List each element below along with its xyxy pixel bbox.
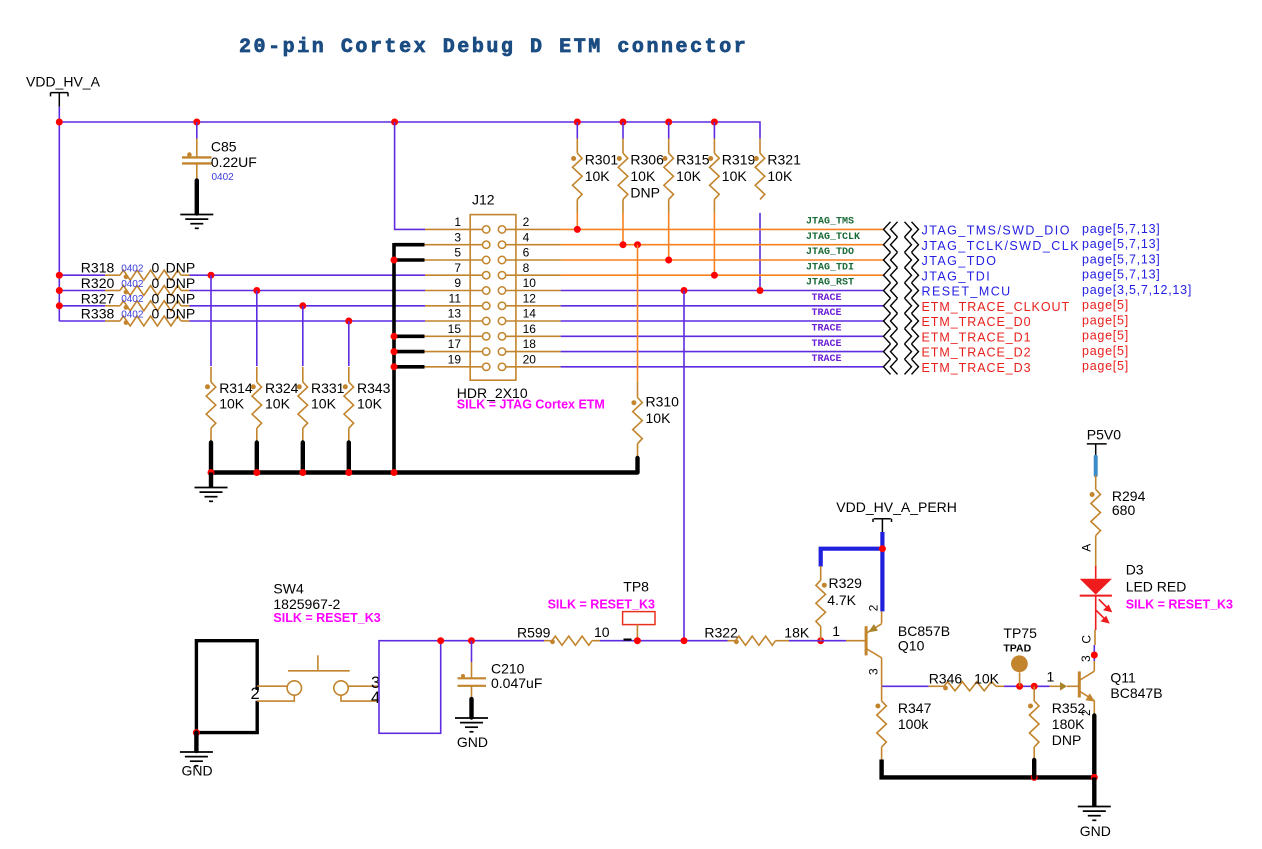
off-page connector row8 xyxy=(884,329,919,344)
wire TRACE_D0 (pin14) xyxy=(561,320,884,322)
pin 17 wire gnd (thick) xyxy=(394,350,425,354)
pin numbers left xyxy=(448,215,462,366)
off-page connector row5 xyxy=(884,283,919,298)
svg-text:SILK = RESET_K3: SILK = RESET_K3 xyxy=(273,611,380,625)
svg-text:R320: R320 xyxy=(81,275,115,291)
svg-text:LED RED: LED RED xyxy=(1126,579,1187,595)
resistor R331 10K xyxy=(297,306,345,442)
wire JTAG_TDO (pin6) xyxy=(561,259,884,261)
svg-text:10K: 10K xyxy=(646,410,672,426)
wire R315 to pin6 row xyxy=(668,213,670,260)
wire C85 to ground (thick) xyxy=(195,181,199,214)
pin 3 wire gnd (thick) xyxy=(394,243,425,247)
svg-text:D3: D3 xyxy=(1126,562,1144,578)
resistor R320 0 DNP xyxy=(59,275,195,296)
resistor R352 180K DNP xyxy=(1028,686,1085,761)
pin 13 wire xyxy=(425,320,483,322)
svg-text:10: 10 xyxy=(523,276,537,290)
svg-text:11: 11 xyxy=(449,291,462,305)
resistor R347 100k xyxy=(875,686,931,761)
pin circles J12 xyxy=(483,226,506,371)
node dots on gnd vertical xyxy=(391,257,398,371)
svg-text:R347: R347 xyxy=(898,700,932,716)
svg-text:0402: 0402 xyxy=(121,309,144,320)
pin stubs right (tan) xyxy=(505,229,560,366)
svg-text:Q11: Q11 xyxy=(1110,670,1136,686)
pin 5 wire gnd (thick) xyxy=(394,258,425,262)
svg-text:1: 1 xyxy=(832,623,840,639)
svg-text:page[5]: page[5] xyxy=(1082,298,1129,312)
capacitor C85 xyxy=(182,122,257,183)
svg-text:TP75: TP75 xyxy=(1003,625,1037,641)
wire reset net horizontal xyxy=(441,640,544,642)
off-page connector row4 xyxy=(884,268,919,283)
svg-text:R346: R346 xyxy=(929,671,963,687)
svg-text:TRACE: TRACE xyxy=(812,308,842,319)
svg-text:C85: C85 xyxy=(211,139,237,155)
svg-text:1825967-2: 1825967-2 xyxy=(273,596,340,612)
svg-text:SILK = RESET_K3: SILK = RESET_K3 xyxy=(548,597,655,611)
wire R321 to pin10 row xyxy=(759,213,761,291)
off-page connector row9 xyxy=(884,344,919,359)
svg-text:SW4: SW4 xyxy=(273,581,304,597)
svg-text:Q10: Q10 xyxy=(898,637,925,653)
wire R352 to bus (thick) xyxy=(1032,760,1036,777)
resistor R599 10 xyxy=(517,624,610,645)
svg-text:0: 0 xyxy=(152,260,160,276)
svg-text:DNP: DNP xyxy=(166,275,196,291)
wire connector-left ground vertical (thick) xyxy=(392,243,396,473)
svg-text:JTAG_TCLK/SWD_CLK: JTAG_TCLK/SWD_CLK xyxy=(922,239,1080,253)
svg-text:2: 2 xyxy=(867,604,881,611)
svg-text:R599: R599 xyxy=(517,624,551,640)
wire R599 to TP8 node xyxy=(592,640,600,642)
wire R322 to Q10 base xyxy=(776,640,790,642)
svg-text:JTAG_RST: JTAG_RST xyxy=(806,278,854,289)
wire bottom gnd bus (thick) xyxy=(882,760,1095,778)
svg-text:R327: R327 xyxy=(81,290,115,306)
svg-text:15: 15 xyxy=(448,322,462,336)
off-page connector row2 xyxy=(884,237,919,252)
svg-text:R318: R318 xyxy=(81,260,115,276)
wire R320 to pin9 xyxy=(181,290,190,292)
ground under SW4 xyxy=(180,752,213,766)
svg-text:10K: 10K xyxy=(357,396,383,412)
svg-text:10K: 10K xyxy=(219,396,245,412)
svg-text:GND: GND xyxy=(457,734,488,750)
node dots on reset line xyxy=(634,637,824,644)
wire JTAG_TMS (pin2) xyxy=(561,228,884,230)
svg-text:100k: 100k xyxy=(898,716,929,732)
node dots on left column xyxy=(56,272,353,325)
wire R314 to gnd bus (thick) xyxy=(209,443,213,473)
pin 19 wire gnd (thick) xyxy=(394,365,425,369)
LED D3 xyxy=(1080,562,1187,630)
off-page connector row6 xyxy=(884,298,919,313)
svg-text:R314: R314 xyxy=(219,380,253,396)
wire ground bus horizontal (thick) xyxy=(211,470,638,474)
svg-text:page[5]: page[5] xyxy=(1082,344,1129,358)
resistor R321 10K xyxy=(754,139,801,200)
power symbol VDD_HV_A xyxy=(26,73,101,122)
svg-text:ETM_TRACE_D2: ETM_TRACE_D2 xyxy=(922,346,1032,360)
svg-text:GND: GND xyxy=(182,763,213,779)
svg-text:JTAG_TDO: JTAG_TDO xyxy=(806,247,854,258)
wire C210 to ground (thick) xyxy=(469,699,473,717)
svg-text:3: 3 xyxy=(454,230,461,244)
wire R310 to gnd bus (thick) xyxy=(635,458,639,473)
wire Q11 emitter to gnd (thick) xyxy=(1092,716,1096,778)
svg-text:R310: R310 xyxy=(646,394,680,410)
svg-text:GND: GND xyxy=(1080,823,1111,839)
wire SW4 to ground (thick) xyxy=(194,733,198,751)
connector J12 HDR_2X10 xyxy=(457,192,528,402)
resistor R329 4.7K xyxy=(816,566,862,641)
svg-text:10K: 10K xyxy=(311,396,337,412)
resistor R343 10K xyxy=(343,321,391,442)
node dots on Q11 base line xyxy=(1016,683,1038,690)
wire R306 to pin4 row xyxy=(622,213,624,245)
wire P5V0 bar (blue) xyxy=(1094,457,1098,475)
svg-text:P5V0: P5V0 xyxy=(1087,427,1121,443)
svg-text:0402: 0402 xyxy=(121,264,144,275)
svg-text:VDD_HV_A: VDD_HV_A xyxy=(26,73,101,89)
transistor Q11 BC847B (NPN) xyxy=(1060,655,1163,716)
pin 11 wire xyxy=(425,305,483,307)
svg-text:DNP: DNP xyxy=(1052,732,1082,748)
wire bus to ground (thick) xyxy=(1092,777,1096,806)
wire R338 to pin13 xyxy=(181,320,190,322)
node dot Q11 collector xyxy=(1091,652,1098,659)
svg-text:R324: R324 xyxy=(265,380,299,396)
svg-text:R321: R321 xyxy=(767,152,801,168)
svg-text:TRACE: TRACE xyxy=(812,293,842,304)
svg-text:16: 16 xyxy=(523,322,537,336)
wire TRACE_CLKOUT (pin12) xyxy=(561,305,884,307)
svg-text:BC847B: BC847B xyxy=(1110,685,1162,701)
svg-text:8: 8 xyxy=(523,261,530,275)
svg-text:JTAG_TMS: JTAG_TMS xyxy=(806,217,854,228)
wire R331 to gnd bus (thick) xyxy=(301,443,305,473)
svg-text:R306: R306 xyxy=(630,152,664,168)
wire R318 to pin7 xyxy=(181,274,190,276)
svg-text:10K: 10K xyxy=(722,168,748,184)
resistor R314 10K xyxy=(205,275,253,442)
svg-text:JTAG_TDI: JTAG_TDI xyxy=(922,269,992,283)
wire JTAG_TDI (pin8) xyxy=(561,274,884,276)
off-page connector row10 xyxy=(884,359,919,374)
svg-text:20-pin Cortex Debug D ETM conn: 20-pin Cortex Debug D ETM connector xyxy=(239,36,748,59)
pin 15 wire gnd (thick) xyxy=(394,334,425,338)
svg-text:TRACE: TRACE xyxy=(812,324,842,335)
svg-text:2: 2 xyxy=(1079,709,1093,716)
svg-text:5: 5 xyxy=(454,246,461,260)
svg-text:C: C xyxy=(1080,635,1094,644)
resistor R301 10K xyxy=(571,122,618,213)
svg-text:1: 1 xyxy=(1047,669,1055,685)
svg-text:R301: R301 xyxy=(585,152,619,168)
svg-text:ETM_TRACE_D1: ETM_TRACE_D1 xyxy=(922,330,1032,344)
svg-text:DNP: DNP xyxy=(166,306,196,322)
svg-text:0402: 0402 xyxy=(212,172,235,183)
wire TRACE_D3 (pin20) xyxy=(561,366,884,368)
svg-text:page[3,5,7,12,13]: page[3,5,7,12,13] xyxy=(1082,283,1192,297)
wire RESET vertical to bottom circuit xyxy=(683,291,685,641)
svg-text:19: 19 xyxy=(448,352,462,366)
svg-text:3: 3 xyxy=(1079,655,1093,662)
svg-text:page[5]: page[5] xyxy=(1082,359,1129,373)
wire Q10 collector node to Q11 base xyxy=(882,685,929,687)
svg-text:page[5,7,13]: page[5,7,13] xyxy=(1082,222,1161,236)
svg-text:4: 4 xyxy=(523,230,530,244)
resistor R346 10K xyxy=(929,671,1000,691)
svg-text:R315: R315 xyxy=(676,152,710,168)
wire R301 to pin2 row xyxy=(576,213,578,230)
svg-text:0: 0 xyxy=(152,290,160,306)
node dots bottom bus xyxy=(1031,774,1098,781)
pin numbers right xyxy=(523,215,537,366)
ground under C210 xyxy=(455,718,488,732)
ground under C85 xyxy=(180,215,213,229)
svg-text:DNP: DNP xyxy=(166,260,196,276)
resistor R294 680 xyxy=(1090,475,1146,566)
svg-text:18K: 18K xyxy=(784,624,810,640)
svg-text:RESET_MCU: RESET_MCU xyxy=(922,285,1012,299)
transistor Q10 BC857B (PNP) xyxy=(866,604,950,686)
svg-text:page[5,7,13]: page[5,7,13] xyxy=(1082,252,1161,266)
svg-text:DNP: DNP xyxy=(630,185,660,201)
resistor R315 10K xyxy=(663,122,710,213)
node dot blue rail xyxy=(879,545,886,552)
node dot SW4 gnd corner xyxy=(193,729,200,736)
svg-text:7: 7 xyxy=(454,261,461,275)
svg-text:10K: 10K xyxy=(585,168,611,184)
node dots on jtag rows xyxy=(574,226,764,294)
wire JTAG_RST (pin10) xyxy=(561,290,884,292)
svg-text:17: 17 xyxy=(448,337,462,351)
svg-text:10K: 10K xyxy=(265,396,291,412)
wire D3 cathode to Q11 collector xyxy=(1094,630,1096,645)
resistor R318 0 DNP xyxy=(59,260,195,281)
wire VDD_HV_A top rail xyxy=(59,122,760,321)
switch SW4 labels xyxy=(273,581,340,613)
svg-text:R329: R329 xyxy=(829,575,863,591)
pin 9 wire xyxy=(425,290,483,292)
pin 1 wire from VDD rail xyxy=(395,122,425,229)
svg-text:10: 10 xyxy=(594,624,610,640)
wire JTAG_TCLK (pin4) xyxy=(561,244,884,246)
svg-text:10K: 10K xyxy=(974,671,1000,687)
svg-text:180K: 180K xyxy=(1052,716,1085,732)
svg-text:R331: R331 xyxy=(311,380,345,396)
resistor R338 0 DNP xyxy=(59,306,195,327)
off-page connector row3 xyxy=(884,252,919,267)
svg-text:A: A xyxy=(1080,544,1094,552)
svg-text:JTAG_TDO: JTAG_TDO xyxy=(922,254,998,268)
wire TRACE_D2 (pin18) xyxy=(561,351,884,353)
svg-text:R319: R319 xyxy=(722,152,756,168)
svg-text:10K: 10K xyxy=(630,168,656,184)
power symbol VDD_HV_A_PERH xyxy=(836,499,957,533)
svg-text:0.047uF: 0.047uF xyxy=(491,675,542,691)
svg-text:0.22UF: 0.22UF xyxy=(211,154,257,170)
resistor R322 18K xyxy=(704,624,809,645)
wire R343 to gnd bus (thick) xyxy=(347,443,351,473)
svg-text:TRACE: TRACE xyxy=(812,354,842,365)
wire R319 to pin8 row xyxy=(713,213,715,275)
svg-text:VDD_HV_A_PERH: VDD_HV_A_PERH xyxy=(836,499,957,515)
svg-text:2: 2 xyxy=(523,215,530,229)
switch SW4 contacts xyxy=(251,655,381,707)
svg-text:0402: 0402 xyxy=(121,279,144,290)
svg-text:14: 14 xyxy=(523,307,537,321)
pin 7 wire xyxy=(425,274,483,276)
resistor R327 0 DNP xyxy=(59,290,195,311)
svg-text:13: 13 xyxy=(448,307,462,321)
svg-text:SILK = JTAG Cortex ETM: SILK = JTAG Cortex ETM xyxy=(457,398,605,412)
svg-text:6: 6 xyxy=(523,246,530,260)
svg-text:JTAG_TDI: JTAG_TDI xyxy=(806,262,854,273)
off-page connector row1 xyxy=(884,222,919,237)
wire R324 to gnd bus (thick) xyxy=(255,443,259,473)
wire R327 to pin11 xyxy=(181,305,190,307)
svg-text:R322: R322 xyxy=(704,624,738,640)
node junctions on top rail xyxy=(56,119,718,126)
svg-text:ETM_TRACE_D3: ETM_TRACE_D3 xyxy=(922,361,1032,375)
svg-text:page[5,7,13]: page[5,7,13] xyxy=(1082,268,1161,282)
svg-text:SILK = RESET_K3: SILK = RESET_K3 xyxy=(1126,597,1233,611)
svg-text:JTAG_TCLK: JTAG_TCLK xyxy=(806,232,860,243)
wire SW4 pins 1-2 shorting loop (thick) xyxy=(196,641,257,733)
svg-text:page[5]: page[5] xyxy=(1082,329,1129,343)
svg-text:680: 680 xyxy=(1112,502,1136,518)
svg-text:10K: 10K xyxy=(767,168,793,184)
svg-text:TP8: TP8 xyxy=(623,579,649,595)
svg-text:12: 12 xyxy=(523,291,537,305)
svg-text:4.7K: 4.7K xyxy=(827,592,856,608)
svg-text:10K: 10K xyxy=(676,168,702,184)
svg-text:2: 2 xyxy=(251,685,260,703)
wire VDD_HV_A_PERH (thick blue) xyxy=(821,549,883,567)
resistor R324 10K xyxy=(251,291,299,443)
wire TRACE_D1 (pin16) xyxy=(561,335,884,337)
resistor R306 10K DNP xyxy=(617,122,664,213)
svg-text:20: 20 xyxy=(523,352,537,366)
svg-text:0402: 0402 xyxy=(121,294,144,305)
off-page connector row7 xyxy=(884,313,919,328)
svg-text:page[5]: page[5] xyxy=(1082,313,1129,327)
svg-text:J12: J12 xyxy=(472,192,495,208)
svg-text:ETM_TRACE_CLKOUT: ETM_TRACE_CLKOUT xyxy=(922,300,1071,314)
svg-text:0: 0 xyxy=(152,275,160,291)
test point TP8 xyxy=(623,579,655,641)
test point TP75 TPAD xyxy=(1003,625,1037,686)
power symbol P5V0 xyxy=(1087,427,1121,458)
wire SW4 output loop (purple rectangle) xyxy=(379,641,441,734)
ground bottom right xyxy=(1078,807,1111,821)
resistor R310 10K xyxy=(631,245,679,457)
svg-text:ETM_TRACE_D0: ETM_TRACE_D0 xyxy=(922,315,1032,329)
ground at left bus end xyxy=(195,473,228,502)
capacitor C210 xyxy=(458,641,543,700)
svg-text:TRACE: TRACE xyxy=(812,339,842,350)
svg-text:R338: R338 xyxy=(81,306,115,322)
wire R346 to Q11 base xyxy=(996,685,1004,687)
svg-text:page[5,7,13]: page[5,7,13] xyxy=(1082,237,1161,251)
svg-text:R343: R343 xyxy=(357,380,391,396)
node dots reset left xyxy=(437,637,475,644)
svg-text:TPAD: TPAD xyxy=(1003,642,1031,654)
svg-text:3: 3 xyxy=(867,668,881,675)
node dots on ground bus xyxy=(208,469,398,476)
svg-text:0: 0 xyxy=(152,306,160,322)
svg-text:18: 18 xyxy=(523,337,537,351)
svg-text:JTAG_TMS/SWD_DIO: JTAG_TMS/SWD_DIO xyxy=(922,224,1071,238)
svg-text:DNP: DNP xyxy=(166,290,196,306)
svg-text:9: 9 xyxy=(454,276,461,290)
svg-text:1: 1 xyxy=(454,215,461,229)
resistor R319 10K xyxy=(708,122,755,213)
